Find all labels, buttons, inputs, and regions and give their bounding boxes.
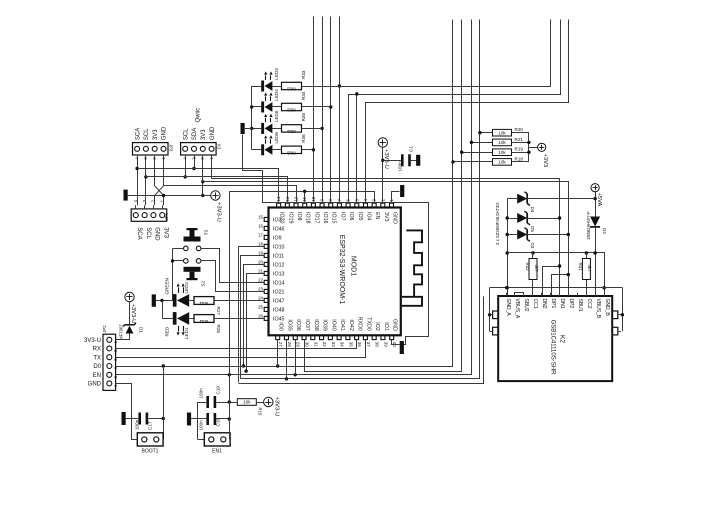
svg-text:TX: TX [93,355,101,361]
svg-text:IO10: IO10 [273,244,285,250]
svg-text:GREEN: GREEN [165,278,170,294]
svg-text:27: 27 [278,342,283,347]
svg-text:80Ω: 80Ω [287,87,296,92]
svg-text:LED3: LED3 [274,68,279,80]
svg-text:10k: 10k [498,140,506,145]
svg-text:80Ω: 80Ω [287,129,296,134]
svg-text:LED1: LED1 [184,327,189,339]
svg-text:C19: C19 [216,386,221,395]
svg-text:SCL: SCL [183,128,189,140]
svg-text:D5: D5 [530,226,535,232]
svg-text:SCL: SCL [144,128,150,140]
svg-text:R35: R35 [301,113,306,122]
svg-text:EN: EN [374,212,380,220]
svg-text:GND_A: GND_A [505,299,511,317]
svg-text:JP2: JP2 [102,325,107,333]
svg-text:LED4: LED4 [274,89,279,101]
svg-text:TXD0: TXD0 [365,317,371,331]
svg-text:DN2: DN2 [541,299,547,309]
svg-text:MF7907: MF7907 [119,324,124,340]
svg-text:1N5819HW7-F: 1N5819HW7-F [586,211,591,240]
svg-text:DN1: DN1 [559,299,565,309]
svg-text:3V3-U: 3V3-U [84,338,101,344]
svg-text:34: 34 [340,342,345,347]
svg-text:39: 39 [383,342,388,347]
svg-text:IO39: IO39 [322,319,328,331]
svg-text:IO11: IO11 [273,253,284,259]
svg-text:+3V3-U: +3V3-U [383,149,389,169]
svg-text:28: 28 [287,342,292,347]
svg-text:RXD0: RXD0 [357,317,363,331]
svg-text:C1: C1 [409,146,414,152]
svg-text:+3V3: +3V3 [542,154,548,168]
svg-text:IO15: IO15 [331,212,337,224]
svg-text:80Ω: 80Ω [287,108,296,113]
svg-text:20: 20 [258,260,263,265]
svg-text:4k7: 4k7 [587,265,592,273]
svg-text:JP4: JP4 [164,212,169,220]
svg-text:IO2: IO2 [374,322,380,331]
svg-text:100n: 100n [398,161,403,172]
svg-text:VBUS_A: VBUS_A [514,299,520,319]
svg-text:31: 31 [313,342,318,347]
svg-text:CC1: CC1 [532,299,538,309]
svg-text:37: 37 [366,342,371,347]
svg-text:IO42: IO42 [348,319,354,331]
svg-text:SDA: SDA [192,128,198,140]
svg-text:3V3: 3V3 [383,212,389,221]
svg-text:4k7: 4k7 [534,265,539,273]
svg-text:R36: R36 [301,134,306,143]
svg-text:IO5: IO5 [357,212,363,221]
svg-text:IO36: IO36 [295,319,301,331]
svg-text:GND: GND [88,382,102,388]
svg-text:R34: R34 [301,91,306,100]
svg-text:SBU2: SBU2 [523,299,529,312]
svg-text:SBU1: SBU1 [577,299,583,312]
svg-text:GND_B: GND_B [604,299,610,317]
svg-text:R33: R33 [301,70,306,79]
svg-text:IO46: IO46 [273,226,285,232]
svg-text:GND: GND [210,126,216,140]
svg-text:IO19: IO19 [287,212,293,224]
svg-text:IO1: IO1 [383,322,389,331]
svg-text:RED: RED [165,326,170,336]
svg-text:3V3: 3V3 [153,129,159,140]
svg-text:26: 26 [258,314,263,319]
svg-text:ESP32-S3-WROOM-1: ESP32-S3-WROOM-1 [338,235,345,305]
svg-text:JP3: JP3 [169,144,174,152]
svg-text:D2: D2 [602,228,607,234]
svg-text:+5VA: +5VA [596,193,602,207]
svg-text:IO21: IO21 [273,289,285,295]
svg-text:R15: R15 [258,408,263,416]
svg-text:R19: R19 [515,147,524,152]
svg-text:IO40: IO40 [330,319,336,331]
svg-text:24: 24 [258,296,263,301]
svg-text:R27: R27 [216,307,221,316]
svg-text:100n: 100n [199,388,204,399]
svg-text:GND: GND [162,126,168,140]
svg-text:33: 33 [331,342,336,347]
svg-text:LED5: LED5 [274,110,279,122]
svg-text:IO35: IO35 [286,319,292,331]
svg-text:10k: 10k [498,130,506,135]
svg-text:R26: R26 [216,325,221,334]
svg-text:IO37: IO37 [304,319,310,331]
svg-text:80Ω: 80Ω [199,301,208,306]
svg-text:R32: R32 [525,263,530,272]
svg-text:IO12: IO12 [273,262,285,268]
svg-text:IO9: IO9 [273,235,282,241]
svg-text:IO18: IO18 [305,212,311,224]
svg-text:CC2: CC2 [586,299,592,309]
svg-text:D0: D0 [93,364,101,370]
svg-text:16: 16 [258,224,263,229]
svg-text:S1: S1 [204,230,209,236]
svg-text:3V3: 3V3 [162,227,168,238]
svg-text:+3V3-U: +3V3-U [216,202,222,222]
svg-text:DP2: DP2 [568,299,574,309]
svg-text:10k: 10k [498,150,506,155]
svg-text:IO47: IO47 [273,298,285,304]
svg-text:R31: R31 [578,263,583,272]
svg-text:R21: R21 [515,137,524,142]
svg-text:80Ω: 80Ω [287,151,296,156]
svg-text:D1: D1 [139,327,144,333]
svg-text:IO13: IO13 [273,271,285,277]
svg-text:R20: R20 [515,127,524,132]
svg-text:IO7: IO7 [339,212,345,221]
svg-text:C18: C18 [216,418,221,427]
svg-text:IO6: IO6 [348,212,354,221]
svg-text:GND: GND [392,212,398,224]
svg-text:30: 30 [305,342,310,347]
svg-text:SCA: SCA [135,128,141,140]
svg-text:Qwiic: Qwiic [196,108,202,123]
svg-text:35: 35 [348,342,353,347]
svg-text:IO3: IO3 [273,217,282,223]
svg-text:IO17: IO17 [313,212,319,224]
svg-text:+3V3-U: +3V3-U [130,304,136,324]
svg-text:10k: 10k [498,160,506,165]
svg-text:80Ω: 80Ω [199,319,208,324]
svg-text:18: 18 [258,242,263,247]
svg-text:R18: R18 [515,156,524,161]
svg-text:C17: C17 [148,421,153,430]
svg-text:10k: 10k [243,400,251,405]
svg-text:15: 15 [258,215,263,220]
svg-text:32: 32 [322,342,327,347]
svg-text:GND: GND [154,227,160,241]
svg-text:D3: D3 [530,243,535,249]
svg-text:IO8: IO8 [296,212,302,221]
svg-text:19: 19 [258,251,263,256]
svg-text:K3: K3 [217,144,222,150]
svg-text:IO4: IO4 [365,212,371,221]
svg-text:LED6: LED6 [274,132,279,144]
svg-text:IO0: IO0 [278,322,284,331]
svg-text:17: 17 [258,233,263,238]
svg-text:DP1: DP1 [550,299,556,309]
svg-text:+3V3-U: +3V3-U [274,397,280,417]
svg-text:100n: 100n [199,420,204,431]
svg-text:IO16: IO16 [322,212,328,224]
svg-text:21: 21 [258,269,263,274]
svg-text:LED2: LED2 [184,282,189,294]
svg-text:3 x SZ25MF48.0AT3G: 3 x SZ25MF48.0AT3G [495,202,500,245]
svg-text:SCA: SCA [136,227,142,239]
svg-text:RX: RX [93,347,101,353]
svg-text:22: 22 [258,278,263,283]
svg-text:IO41: IO41 [339,319,345,331]
svg-text:100n: 100n [135,419,140,430]
svg-text:38: 38 [375,342,380,347]
svg-text:D4: D4 [530,207,535,213]
svg-text:IO38: IO38 [313,319,319,331]
svg-text:IO14: IO14 [273,280,285,286]
svg-text:EN: EN [93,373,101,379]
svg-text:29: 29 [296,342,301,347]
svg-text:EN1: EN1 [212,449,222,455]
svg-text:23: 23 [258,287,263,292]
svg-text:BOOT1: BOOT1 [142,449,159,455]
svg-text:MOD1: MOD1 [350,256,357,276]
svg-text:36: 36 [357,342,362,347]
svg-text:K2: K2 [559,335,566,343]
svg-text:GND: GND [392,319,398,331]
svg-text:3V3: 3V3 [201,129,207,140]
svg-text:25: 25 [258,305,263,310]
svg-text:GSB1C41110S-SHR: GSB1C41110S-SHR [550,320,556,375]
svg-text:IO48: IO48 [273,307,285,313]
svg-text:SCL: SCL [145,227,151,239]
svg-text:S2: S2 [201,281,206,287]
svg-text:VBUS_B: VBUS_B [595,299,601,319]
